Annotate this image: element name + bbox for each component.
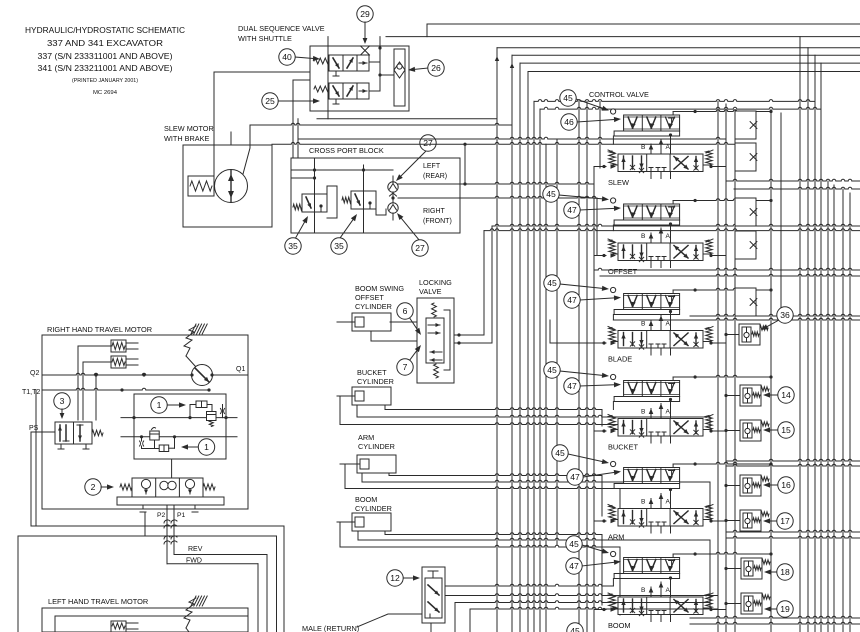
- svg-text:47: 47: [569, 561, 579, 571]
- svg-text:BOOM: BOOM: [355, 495, 377, 504]
- svg-text:A: A: [666, 144, 671, 151]
- travel motor circle: [190, 365, 213, 386]
- wire valve 12 lines: [431, 584, 718, 632]
- svg-text:BUCKET: BUCKET: [608, 443, 638, 452]
- spring right BOOM: [703, 593, 713, 608]
- dual sequence valve label: [238, 24, 325, 43]
- svg-text:(REAR): (REAR): [423, 173, 447, 180]
- svg-text:BLADE: BLADE: [608, 355, 632, 364]
- wire P2 P1 drop lines: [164, 505, 177, 564]
- svg-text:A: A: [666, 587, 671, 594]
- main spool valve BOOM: [618, 597, 703, 616]
- svg-text:(PRINTED JANUARY 2001): (PRINTED JANUARY 2001): [72, 78, 138, 84]
- wire boom swing cylinder to locking valve: [371, 322, 417, 341]
- wire right margin verticals: [771, 37, 850, 632]
- callout 35 left: [285, 216, 308, 254]
- svg-text:P1: P1: [177, 512, 186, 519]
- callout 36: [761, 307, 793, 330]
- svg-text:27: 27: [415, 243, 425, 253]
- check and relief circuit bottom: [140, 428, 175, 452]
- boom swing offset cylinder: [352, 313, 391, 331]
- svg-text:CROSS PORT BLOCK: CROSS PORT BLOCK: [309, 146, 384, 155]
- svg-text:Q2: Q2: [30, 370, 39, 377]
- callout 27 bottom: [397, 213, 428, 256]
- svg-text:A: A: [666, 321, 671, 328]
- wires pilot-to-main BLADE: [649, 310, 672, 331]
- cross port relief valve right: [342, 165, 386, 233]
- wire row slew return: [726, 179, 860, 189]
- svg-text:341 (S/N 233211001 AND ABOVE): 341 (S/N 233211001 AND ABOVE): [38, 64, 173, 73]
- left hand travel motor box: [42, 608, 248, 632]
- svg-text:RIGHT: RIGHT: [423, 208, 446, 215]
- svg-text:ARM: ARM: [358, 433, 374, 442]
- relief valve (callout 19): [741, 593, 770, 614]
- main spool valve BUCKET: [618, 419, 703, 438]
- wires bottom ports OFFSET: [651, 261, 671, 268]
- valve 12: [422, 567, 445, 623]
- callout 17: [763, 513, 793, 529]
- spring left BUCKET: [608, 415, 618, 430]
- wire sequence to shuttle: [369, 37, 394, 91]
- svg-text:WITH BRAKE: WITH BRAKE: [164, 134, 210, 143]
- callout 16: [763, 477, 794, 493]
- callout 47 ARM: [567, 469, 621, 485]
- wires bottom ports SLEW: [651, 172, 671, 179]
- wires bottom ports BUCKET: [651, 436, 671, 443]
- wire inner box bus lines: [121, 416, 237, 438]
- wire left port BLADE: [594, 341, 616, 346]
- svg-text:45: 45: [555, 448, 565, 458]
- sequence valve upper: [314, 55, 369, 76]
- title block: [25, 26, 185, 96]
- wire right port BUCKET: [709, 429, 726, 432]
- sequence valve lower: [314, 83, 369, 104]
- main spool valve OFFSET: [618, 243, 703, 262]
- bucket cylinder: [352, 387, 391, 405]
- relief valve (callout 15): [740, 420, 769, 441]
- svg-text:A: A: [666, 233, 671, 240]
- pilot valve OFFSET: [614, 204, 680, 225]
- svg-text:MALE (RETURN): MALE (RETURN): [302, 624, 359, 632]
- wire valve box drop lines: [214, 72, 310, 176]
- svg-text:17: 17: [780, 516, 790, 526]
- svg-text:WITH SHUTTLE: WITH SHUTTLE: [238, 34, 292, 43]
- spring left SLEW: [608, 150, 618, 165]
- locking valve: [417, 298, 454, 383]
- check valve circles: [388, 182, 398, 213]
- callout 12: [387, 570, 420, 586]
- svg-text:SLEW MOTOR: SLEW MOTOR: [164, 124, 214, 133]
- boom cylinder: [352, 513, 391, 531]
- wire pilot output ARM: [673, 462, 773, 467]
- wire pilot drain ARM: [612, 488, 614, 490]
- callout 45 BLADE: [544, 275, 609, 291]
- svg-text:B: B: [641, 499, 646, 506]
- wire pilot output BUCKET: [673, 375, 773, 380]
- relief valve (callout 14): [740, 385, 769, 406]
- wire left port ARM: [594, 519, 616, 524]
- svg-text:B: B: [641, 321, 646, 328]
- svg-text:T1,T2: T1,T2: [22, 389, 40, 396]
- svg-text:A: A: [666, 409, 671, 416]
- wire relief to bus (callout 17): [724, 519, 740, 522]
- travel motor shuttle spring box 1: [78, 340, 138, 352]
- svg-text:29: 29: [360, 9, 370, 19]
- wire blade left loop: [550, 320, 594, 343]
- wire locking valve to bus: [454, 226, 492, 345]
- relief valve (callout 18): [741, 558, 770, 579]
- spring right ARM: [703, 505, 713, 520]
- wire cross port internals: [291, 168, 393, 179]
- callout 45 OFFSET: [543, 186, 609, 202]
- boom swing offset cylinder label: [355, 284, 404, 311]
- wire bottom return rows: [455, 601, 718, 632]
- svg-text:36: 36: [780, 310, 790, 320]
- svg-text:BOOM SWING: BOOM SWING: [355, 284, 404, 293]
- relief valve (callout 16): [740, 475, 769, 496]
- wire pilot drain BOOM: [612, 579, 614, 587]
- callout 47 BUCKET: [564, 378, 621, 394]
- svg-text:40: 40: [282, 52, 292, 62]
- callout 45 bottom edge: [567, 623, 583, 632]
- wire left port BUCKET: [594, 429, 616, 434]
- arm cylinder label: [358, 433, 395, 451]
- arm cylinder: [357, 455, 396, 473]
- svg-text:BUCKET: BUCKET: [357, 368, 387, 377]
- wire left port BOOM: [594, 607, 616, 612]
- callout 6: [397, 303, 421, 335]
- wire PS return lines: [18, 390, 284, 632]
- spring right OFFSET: [703, 239, 713, 254]
- label LEFT (REAR): [423, 163, 447, 180]
- travel brake shuttle valve: [117, 478, 224, 512]
- wire bucket cylinder lines: [337, 396, 710, 436]
- callout 26: [408, 60, 444, 76]
- closed port X symbol: [361, 46, 370, 55]
- port labels P2 P1: [157, 512, 186, 519]
- svg-text:OFFSET: OFFSET: [355, 293, 384, 302]
- svg-text:3: 3: [60, 396, 65, 406]
- wire pilot drain BUCKET: [612, 402, 614, 410]
- wire shuttle verticals: [78, 346, 96, 420]
- svg-text:45: 45: [547, 365, 557, 375]
- wire top bus lines: [317, 24, 860, 119]
- wire relief to bus (callout 16): [724, 484, 740, 487]
- wire right port ARM: [709, 519, 726, 522]
- port labels B A OFFSET: [641, 233, 671, 240]
- wire control valve left verticals: [557, 101, 600, 632]
- pilot valve ARM: [614, 468, 680, 489]
- spring right BLADE: [703, 327, 713, 342]
- callout 27 top: [396, 135, 436, 181]
- spring left OFFSET: [608, 239, 618, 254]
- port labels B A BLADE: [641, 321, 671, 328]
- callout 1 bottom: [181, 439, 215, 455]
- svg-text:MC 2694: MC 2694: [93, 90, 117, 96]
- svg-text:PS: PS: [29, 425, 39, 432]
- spring left BOOM: [608, 593, 618, 608]
- svg-text:45: 45: [570, 626, 580, 632]
- wire right front line: [393, 196, 597, 255]
- left travel motor brake spring: [184, 596, 207, 632]
- svg-text:B: B: [641, 144, 646, 151]
- callout 3: [54, 393, 70, 419]
- pilot valve BOOM: [614, 558, 680, 579]
- callout 45 BOOM: [566, 536, 609, 554]
- bypass box offset 1: [735, 198, 756, 226]
- label RIGHT (FRONT): [423, 208, 452, 225]
- wire left port OFFSET: [594, 253, 616, 258]
- svg-text:LEFT HAND TRAVEL MOTOR: LEFT HAND TRAVEL MOTOR: [48, 597, 148, 606]
- travel motor brake spring: [184, 324, 207, 367]
- svg-text:1: 1: [157, 400, 162, 410]
- wire pilot drain OFFSET: [612, 225, 614, 231]
- wire PS line: [31, 431, 55, 433]
- wire arm cylinder lines: [340, 464, 710, 526]
- wires bottom ports BLADE: [651, 348, 671, 355]
- svg-text:47: 47: [567, 205, 577, 215]
- left travel motor inner box: [55, 616, 248, 632]
- wire left port SLEW: [594, 164, 616, 169]
- wire row boom return: [690, 616, 860, 624]
- check and relief circuit top: [190, 401, 225, 427]
- svg-text:A: A: [666, 499, 671, 506]
- svg-text:45: 45: [563, 93, 573, 103]
- right hand travel motor box: [42, 335, 248, 509]
- callout 1 top: [151, 397, 186, 413]
- wire pilot output OFFSET: [673, 199, 773, 204]
- shuttle valve: [394, 49, 405, 106]
- wire right port SLEW: [709, 165, 726, 168]
- callout 47 OFFSET: [564, 202, 621, 218]
- callout 18: [764, 564, 793, 580]
- svg-text:35: 35: [334, 241, 344, 251]
- wire row slew supply: [272, 137, 735, 144]
- wire relief to bus (callout 14): [724, 394, 740, 397]
- svg-text:14: 14: [781, 390, 791, 400]
- svg-text:VALVE: VALVE: [419, 287, 442, 296]
- wires pilot-to-main SLEW: [649, 133, 672, 154]
- wires bottom ports ARM: [651, 526, 671, 533]
- wire right port BOOM: [709, 608, 726, 611]
- svg-text:B: B: [641, 587, 646, 594]
- svg-text:47: 47: [567, 295, 577, 305]
- svg-text:CYLINDER: CYLINDER: [355, 504, 392, 513]
- wire mid-to-right brackets: [534, 100, 821, 110]
- wire inner box to valve: [171, 459, 173, 478]
- port labels Q2 T1T2 PS Q1: [22, 366, 245, 432]
- svg-text:LOCKING: LOCKING: [419, 278, 452, 287]
- wires pilot-to-main BOOM: [649, 576, 672, 597]
- svg-text:CYLINDER: CYLINDER: [358, 442, 395, 451]
- svg-text:337 AND 341 EXCAVATOR: 337 AND 341 EXCAVATOR: [47, 39, 163, 48]
- callout 35 right: [331, 214, 357, 254]
- callout 47 BLADE: [564, 292, 621, 308]
- svg-text:1: 1: [204, 442, 209, 452]
- slew motor circle: [215, 170, 248, 203]
- callout 45 ARM: [552, 445, 609, 464]
- svg-text:45: 45: [547, 278, 557, 288]
- wires pilot-to-main OFFSET: [649, 222, 672, 243]
- wire pilot drain BLADE: [612, 315, 614, 321]
- svg-text:19: 19: [780, 604, 790, 614]
- callout 2: [85, 479, 114, 495]
- svg-text:35: 35: [288, 241, 298, 251]
- wire boom cylinder lines: [337, 522, 710, 615]
- svg-text:(FRONT): (FRONT): [423, 218, 452, 225]
- wire mid bus verticals: [497, 48, 546, 632]
- wire brake pilot: [243, 123, 512, 174]
- cross port relief valve left: [293, 158, 337, 233]
- bypass box slew 2: [735, 143, 756, 171]
- spring left BLADE: [608, 327, 618, 342]
- pilot port circle BOOM: [611, 551, 616, 556]
- callout 19: [764, 601, 793, 617]
- svg-text:45: 45: [569, 539, 579, 549]
- callout 47 BOOM: [566, 558, 621, 574]
- left travel motor spring boxes: [111, 621, 138, 632]
- bypass box slew 1: [735, 111, 756, 139]
- svg-text:B: B: [641, 233, 646, 240]
- callout 45 BUCKET: [544, 362, 609, 378]
- wire Q2 line: [42, 373, 248, 376]
- svg-text:LEFT: LEFT: [423, 163, 441, 170]
- spring left ARM: [608, 505, 618, 520]
- svg-text:45: 45: [546, 189, 556, 199]
- svg-text:REV: REV: [188, 546, 203, 553]
- relief valve (callout 36): [739, 324, 768, 345]
- wire row offset return: [594, 268, 860, 276]
- main spool valve ARM: [618, 509, 703, 528]
- wire pilot output SLEW: [673, 110, 773, 115]
- callout 40: [279, 49, 320, 65]
- wire row arm return: [726, 530, 860, 538]
- callout 14: [763, 387, 794, 403]
- svg-text:Q1: Q1: [236, 366, 245, 373]
- svg-text:7: 7: [403, 362, 408, 372]
- svg-text:P2: P2: [157, 512, 166, 519]
- svg-text:26: 26: [431, 63, 441, 73]
- callout 29: [357, 6, 373, 44]
- relief valve (callout 17): [740, 510, 769, 531]
- wire pilot drain SLEW: [612, 136, 614, 144]
- svg-text:RIGHT HAND TRAVEL MOTOR: RIGHT HAND TRAVEL MOTOR: [47, 325, 152, 334]
- callout 46 SLEW: [561, 114, 621, 130]
- pilot port circle OFFSET: [611, 198, 616, 203]
- wire row offset supply: [484, 224, 860, 230]
- wire right port OFFSET: [709, 254, 726, 257]
- wire left rear line: [393, 143, 594, 186]
- svg-text:B: B: [641, 409, 646, 416]
- pilot valve BLADE: [614, 294, 680, 315]
- svg-text:CYLINDER: CYLINDER: [355, 302, 392, 311]
- slew motor box: [183, 145, 272, 227]
- svg-text:OFFSET: OFFSET: [608, 267, 638, 276]
- port labels B A BOOM: [641, 587, 671, 594]
- svg-text:ARM: ARM: [608, 533, 624, 542]
- svg-text:HYDRAULIC/HYDROSTATIC SCHEMATI: HYDRAULIC/HYDROSTATIC SCHEMATIC: [25, 26, 185, 35]
- slew motor label: [164, 124, 214, 143]
- bypass box offset 2: [735, 231, 756, 259]
- wire relief to bus (callout 18): [724, 567, 741, 570]
- main spool valve SLEW: [618, 154, 703, 173]
- wire right port BLADE: [709, 341, 726, 344]
- wire slew motor ports: [230, 132, 232, 145]
- svg-text:DUAL SEQUENCE VALVE: DUAL SEQUENCE VALVE: [238, 24, 325, 33]
- svg-text:47: 47: [567, 381, 577, 391]
- travel motor shuttle spring box 2: [83, 356, 138, 368]
- port labels B A BUCKET: [641, 409, 671, 416]
- svg-text:46: 46: [564, 117, 574, 127]
- port labels B A ARM: [641, 499, 671, 506]
- svg-text:25: 25: [265, 96, 275, 106]
- wire T1T2 line: [42, 388, 211, 391]
- svg-text:SLEW: SLEW: [608, 178, 629, 187]
- callout 15: [763, 422, 794, 438]
- wire relief to bus (callout 15): [724, 429, 740, 432]
- wire pilot output BOOM: [673, 552, 773, 557]
- svg-text:2: 2: [91, 482, 96, 492]
- bucket cylinder label: [357, 368, 394, 386]
- svg-text:16: 16: [781, 480, 791, 490]
- wire row blade return: [613, 314, 860, 320]
- svg-text:12: 12: [390, 573, 400, 583]
- svg-text:337 (S/N 233311001 AND ABOVE): 337 (S/N 233311001 AND ABOVE): [38, 52, 173, 61]
- pilot shuttle valve: [55, 422, 103, 449]
- spring right BUCKET: [703, 415, 713, 430]
- pilot port circle ARM: [611, 461, 616, 466]
- cross port block box: [291, 158, 460, 233]
- slew motor brake spring box: [188, 176, 214, 196]
- label male return: [302, 614, 421, 632]
- boom cylinder label: [355, 495, 392, 513]
- labels REV FWD: [186, 546, 203, 565]
- svg-text:47: 47: [570, 472, 580, 482]
- callout 7: [397, 345, 421, 375]
- pilot port circle SLEW: [611, 109, 616, 114]
- pilot port circle BUCKET: [611, 374, 616, 379]
- wire pilot output BLADE: [673, 288, 773, 293]
- pilot valve SLEW: [614, 115, 680, 136]
- svg-text:6: 6: [403, 306, 408, 316]
- callout 45 SLEW: [560, 90, 609, 111]
- wire relief to bus (callout 19): [724, 602, 741, 605]
- main spool valve BLADE: [618, 331, 703, 350]
- wire REV FWD lines: [167, 555, 267, 632]
- wire row bucket return: [726, 459, 860, 466]
- pilot valve BUCKET: [614, 381, 680, 402]
- wires pilot-to-main ARM: [649, 488, 672, 509]
- spring right SLEW: [703, 150, 713, 165]
- svg-text:CYLINDER: CYLINDER: [357, 377, 394, 386]
- travel motor inner box: [134, 394, 226, 459]
- wires bottom ports BOOM: [651, 615, 671, 622]
- wires pilot-to-main BUCKET: [649, 398, 672, 419]
- svg-text:BOOM: BOOM: [608, 621, 631, 630]
- pilot port circle BLADE: [611, 287, 616, 292]
- svg-text:18: 18: [780, 567, 790, 577]
- port labels B A SLEW: [641, 144, 671, 151]
- svg-text:CONTROL VALVE: CONTROL VALVE: [589, 90, 649, 99]
- locking valve label: [419, 278, 452, 296]
- dual sequence valve outer box: [310, 37, 409, 119]
- wire control valve right verticals: [718, 101, 735, 632]
- svg-text:15: 15: [781, 425, 791, 435]
- wire relief to bus (callout 36): [724, 333, 739, 336]
- callout 25: [262, 93, 320, 109]
- bypass box blade: [735, 288, 756, 316]
